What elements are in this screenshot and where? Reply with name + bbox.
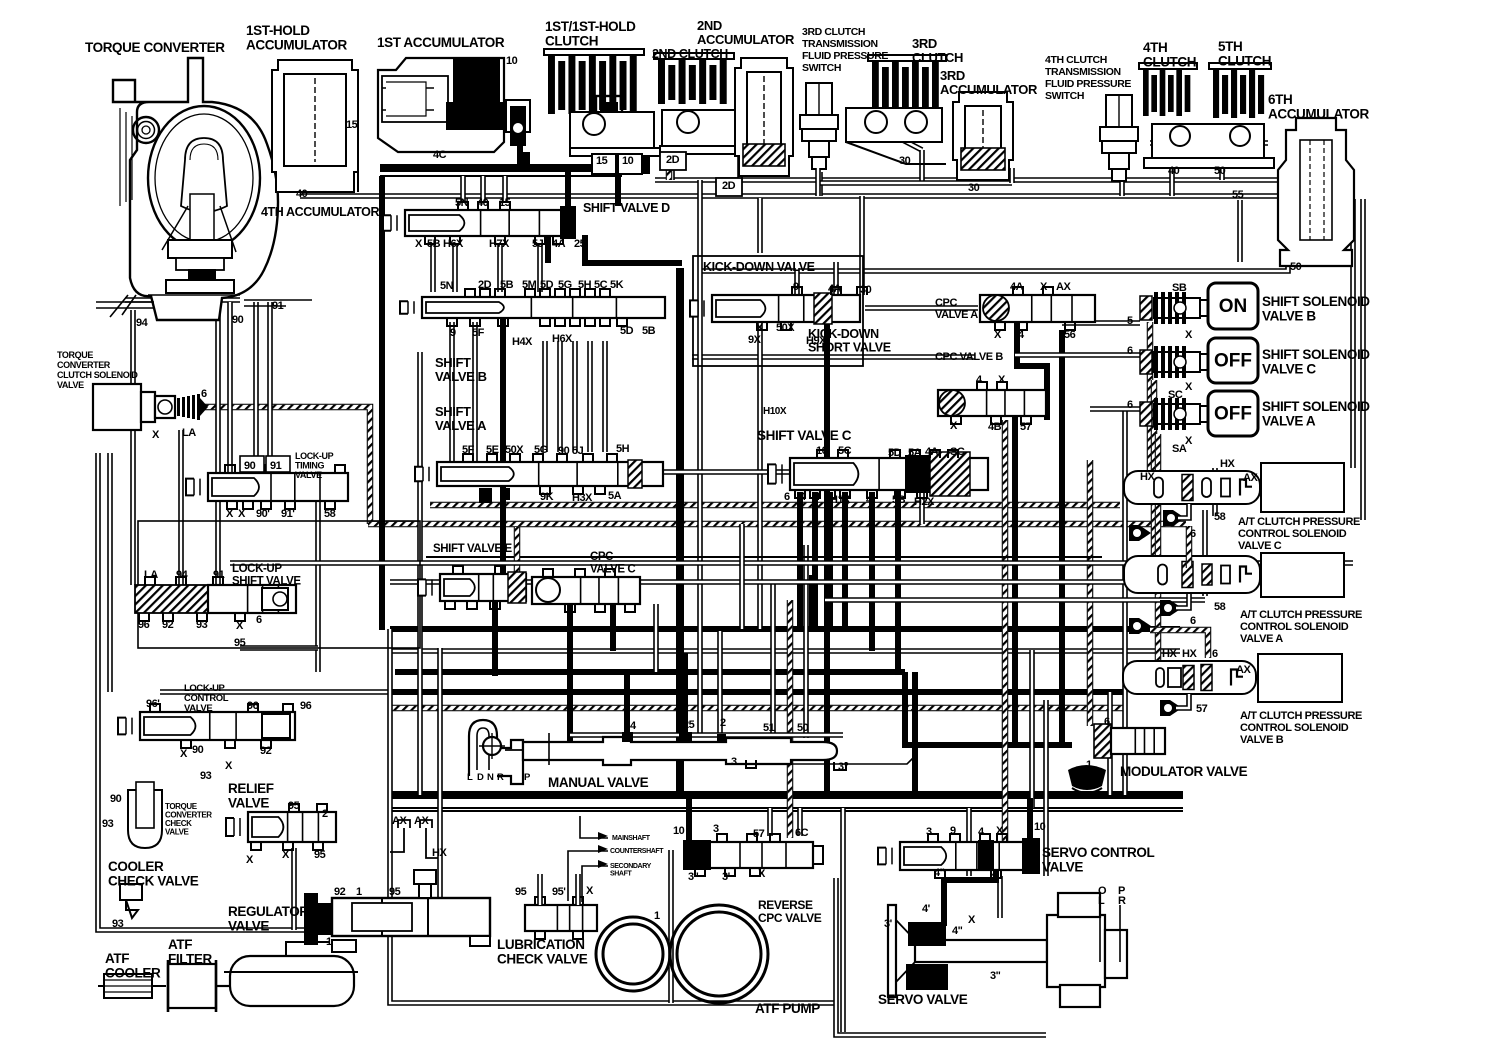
svg-text:X: X (415, 238, 423, 250)
wire vert 671 (668, 850, 674, 1003)
wire solenoid C feed (1151, 380, 1158, 566)
svg-text:91': 91' (281, 508, 295, 520)
svg-text:H6X: H6X (552, 333, 573, 345)
wire relief drop (291, 848, 297, 930)
svg-text:51: 51 (763, 722, 775, 734)
manual valve lever (469, 720, 523, 784)
svg-text:1: 1 (1086, 759, 1092, 771)
svg-text:HX: HX (1162, 648, 1177, 660)
torque converter hub (166, 240, 234, 293)
svg-text:6: 6 (1190, 528, 1196, 540)
wire B-A link (602, 341, 608, 452)
wire vert 1046 (1043, 700, 1049, 876)
svg-text:94: 94 (176, 569, 189, 581)
wire 91 drop (267, 302, 273, 473)
wire lubrication box (390, 629, 836, 1003)
svg-text:3": 3" (688, 871, 699, 883)
torque converter outlet lines (96, 302, 154, 308)
wire 2D manifold (655, 177, 1288, 183)
wire D-B 3 (497, 245, 503, 292)
svg-text:3': 3' (722, 871, 731, 883)
svg-text:57: 57 (753, 828, 765, 840)
svg-text:93: 93 (200, 770, 212, 782)
svg-text:AX: AX (1243, 472, 1258, 484)
svg-text:4': 4' (990, 871, 999, 883)
svg-text:X: X (968, 914, 976, 926)
lock-up shift valve hatch (135, 585, 208, 613)
wire 6 B hatch (1150, 630, 1208, 658)
torque converter clutch solenoid valve (93, 384, 175, 430)
wire vert 520 (517, 120, 523, 168)
reverse CPC valve (683, 840, 823, 870)
wire 735 (570, 732, 843, 738)
svg-text:5G: 5G (558, 279, 572, 291)
svg-text:95: 95 (314, 849, 326, 861)
svg-text:H2X: H2X (914, 496, 935, 508)
svg-text:1: 1 (356, 886, 362, 898)
svg-text:X: X (998, 374, 1006, 386)
wire hatched 708 (390, 705, 1125, 712)
svg-text:L: L (467, 772, 473, 783)
svg-text:9K: 9K (540, 491, 554, 503)
lubrication check valve (525, 905, 597, 931)
servo control valve (878, 842, 1024, 870)
wire vert 503 (500, 318, 506, 600)
wire 90 drop b (215, 302, 221, 473)
svg-text:2D: 2D (722, 180, 736, 192)
svg-text:1: 1 (654, 910, 660, 922)
svg-text:50: 50 (797, 722, 809, 734)
svg-text:4A: 4A (1010, 281, 1024, 293)
svg-text:90: 90 (110, 793, 122, 805)
ATF pump circles (596, 905, 768, 1003)
svg-text:5D: 5D (888, 447, 902, 459)
wire B-A link (557, 341, 563, 452)
1st accumulator valves (506, 100, 530, 132)
wire C drop (797, 492, 803, 629)
svg-text:X: X (180, 748, 188, 760)
svg-text:SC: SC (1168, 389, 1183, 401)
svg-text:2: 2 (322, 808, 328, 820)
wire 15 drop (597, 140, 603, 168)
wire 9 riser (757, 198, 763, 253)
svg-text:5H: 5H (578, 279, 592, 291)
svg-text:REVERSE CPC VALVE: REVERSE CPC VALVE (758, 898, 822, 925)
svg-text:90: 90 (192, 744, 204, 756)
svg-text:1: 1 (676, 759, 682, 771)
fitting 6 A (1129, 618, 1151, 634)
wire vert 680 bold (676, 268, 684, 795)
clutch 2nd pack (654, 53, 734, 104)
svg-text:4B: 4B (988, 421, 1002, 433)
wire box shift valve E top (426, 556, 1102, 558)
wire vert 618 (615, 172, 621, 206)
shift solenoid valve B icon (1140, 292, 1210, 324)
wire 50 long (700, 232, 1288, 271)
torque converter body (113, 58, 278, 320)
wire vert 969 (966, 808, 972, 876)
wire shift E hatch riser (514, 527, 521, 573)
node 15 boxed (592, 154, 616, 174)
svg-text:3": 3" (838, 761, 849, 773)
wire 95 link (240, 645, 318, 651)
svg-text:94: 94 (136, 317, 149, 329)
wire to modulator (905, 672, 1072, 745)
svg-text:57: 57 (1020, 421, 1032, 433)
svg-text:90: 90 (232, 314, 244, 326)
svg-text:2D: 2D (666, 154, 680, 166)
svg-text:X: X (756, 322, 764, 334)
lock-up timing valve (186, 473, 348, 501)
wire 3rd accum funnel (1009, 168, 1015, 183)
lock-up region box (138, 521, 420, 648)
clutch 1st piston (570, 112, 670, 156)
wire manual 51 (770, 582, 776, 738)
wire 692 bold (390, 689, 1125, 695)
wire manual valve rail (390, 791, 1183, 799)
svg-text:9X: 9X (748, 334, 762, 346)
wire 50 drop (1219, 143, 1225, 180)
wire kickdown to CPC A (865, 305, 978, 311)
kick-down valve (690, 293, 860, 324)
svg-text:X: X (996, 825, 1004, 837)
svg-text:92: 92 (162, 619, 174, 631)
svg-text:HX: HX (1220, 458, 1235, 470)
svg-text:COUNTERSHAFT: COUNTERSHAFT (610, 848, 664, 855)
svg-text:X: X (758, 868, 766, 880)
svg-text:5N: 5N (440, 280, 454, 292)
svg-text:N: N (487, 772, 494, 783)
svg-text:LA: LA (144, 569, 158, 581)
wire 15 stub (357, 120, 359, 192)
wire lub 95p (575, 874, 581, 905)
wire C drop (827, 492, 833, 629)
junction block 10 (634, 140, 650, 174)
modulator valve (1111, 728, 1165, 754)
svg-text:4TH ACCUMULATOR: 4TH ACCUMULATOR (261, 205, 379, 219)
wire vert 790 hatch (787, 600, 794, 838)
svg-text:6: 6 (1127, 345, 1133, 357)
wire bold bundle 1 (390, 626, 1180, 632)
svg-text:95: 95 (234, 637, 246, 649)
svg-text:10: 10 (816, 445, 828, 457)
svg-text:30: 30 (899, 155, 911, 167)
wire vert 742 (739, 524, 745, 629)
wire 94 drop (178, 430, 184, 585)
wire vert 1353 (1350, 199, 1356, 468)
svg-text:40: 40 (1168, 165, 1180, 177)
wire bundle 2 (390, 648, 1180, 654)
wire vert 1005 hatched (1002, 420, 1009, 845)
svg-text:96: 96 (138, 619, 150, 631)
wire kickdown 30 (859, 196, 865, 295)
svg-text:40: 40 (477, 197, 489, 209)
wire C drop (842, 492, 848, 629)
svg-text:AX: AX (392, 815, 407, 827)
svg-text:40: 40 (296, 188, 308, 200)
svg-text:4A: 4A (828, 283, 842, 295)
svg-text:X: X (586, 885, 594, 897)
svg-text:AX: AX (414, 815, 429, 827)
lock-up control valve (118, 712, 295, 740)
wire left box (98, 453, 440, 930)
wire 15 bold (380, 164, 645, 172)
wire vert 1215 (1212, 468, 1218, 516)
svg-text:3: 3 (713, 823, 719, 835)
wire manual 25 (682, 653, 688, 740)
wire revcpc 1 (767, 808, 773, 836)
wire D-B 4 (537, 245, 543, 292)
svg-text:AX: AX (1056, 281, 1071, 293)
svg-text:95: 95 (515, 886, 527, 898)
svg-text:6: 6 (1212, 648, 1218, 660)
svg-text:93: 93 (112, 918, 124, 930)
svg-text:H4X: H4X (512, 336, 533, 348)
wire vert 382 (379, 176, 385, 630)
svg-text:6: 6 (784, 491, 790, 503)
svg-text:H9X: H9X (806, 335, 827, 347)
svg-text:3: 3 (926, 826, 932, 838)
lock-up shift valve (208, 585, 296, 613)
wire D top 1 (460, 176, 466, 202)
svg-text:5B: 5B (427, 238, 441, 250)
wire manual 2 (717, 631, 723, 740)
wire 55 (1237, 200, 1243, 262)
svg-text:H6X: H6X (443, 238, 464, 250)
pressure switch 3rd clutch (800, 83, 838, 169)
svg-text:2: 2 (720, 717, 726, 729)
wire servo box (836, 878, 1046, 1035)
svg-text:91: 91 (272, 300, 284, 312)
wire A to C (645, 469, 790, 475)
fitting 57 B (1160, 700, 1182, 716)
wire D-B 1 (430, 245, 436, 292)
svg-text:4": 4" (934, 867, 945, 879)
wire solenoid A feed (1155, 434, 1162, 668)
svg-text:HX: HX (1140, 471, 1155, 483)
wire vert 915 (912, 672, 918, 795)
wire 2D drop0 (666, 140, 673, 180)
svg-text:SERVO VALVE: SERVO VALVE (878, 992, 968, 1007)
svg-text:5C: 5C (594, 279, 608, 291)
wire 5 to solenoid B (1062, 320, 1140, 326)
clutch 1st/1st-hold pack (544, 49, 644, 114)
svg-text:HX: HX (1182, 648, 1197, 660)
svg-text:H3X: H3X (572, 492, 593, 504)
modulator valve hatch (1094, 724, 1111, 758)
svg-text:5: 5 (1127, 315, 1133, 327)
svg-text:X: X (226, 508, 234, 520)
CPC valve B (938, 390, 1046, 416)
svg-text:96: 96 (300, 700, 312, 712)
pressure switch 4th clutch (1100, 95, 1138, 181)
A/T CPC solenoid valve B assembly (1123, 661, 1256, 694)
svg-text:ON: ON (1219, 296, 1248, 317)
wire 692 (160, 689, 1125, 695)
svg-text:X: X (1185, 329, 1193, 341)
wire servo inner (997, 876, 1003, 918)
svg-text:5A: 5A (608, 490, 622, 502)
svg-text:15: 15 (596, 155, 608, 167)
wire 6 C hatch (1186, 526, 1193, 568)
wire 91p drop (215, 502, 221, 585)
svg-text:93: 93 (102, 818, 114, 830)
wire D top 2 (480, 176, 486, 202)
svg-text:5D: 5D (540, 279, 554, 291)
svg-text:5K: 5K (610, 279, 624, 291)
svg-text:4": 4" (952, 925, 963, 937)
svg-text:KICK-DOWN VALVE: KICK-DOWN VALVE (703, 260, 815, 274)
wire hatched 505 (430, 502, 1120, 509)
fitting 6 C (1129, 525, 1151, 541)
svg-text:50X: 50X (776, 322, 795, 334)
wire D to kickdown bold (585, 235, 682, 263)
svg-text:90: 90 (244, 460, 256, 472)
solenoid B state ON (1208, 283, 1258, 329)
wire 94-90 (125, 297, 240, 303)
manual valve spool (505, 733, 837, 765)
regulator valve (304, 870, 490, 952)
svg-text:95': 95' (552, 886, 566, 898)
svg-text:92: 92 (334, 886, 346, 898)
solenoid C state OFF (1208, 338, 1258, 383)
svg-text:91: 91 (213, 569, 225, 581)
wire 6 hatched main (205, 407, 370, 524)
svg-text:5H: 5H (616, 443, 630, 455)
wire left box inner (107, 453, 113, 692)
svg-text:95: 95 (288, 800, 300, 812)
clutch 3rd assembly (846, 108, 946, 164)
wire 30 diagonal (868, 122, 922, 150)
svg-text:5J: 5J (532, 238, 544, 250)
wire 357 (692, 354, 975, 360)
shift valve A (415, 460, 663, 488)
wire 58 A link (1176, 594, 1189, 608)
clutch 5th pack (1209, 63, 1271, 118)
svg-text:1: 1 (326, 936, 332, 948)
wire CPC C drop 2 (610, 601, 616, 651)
svg-text:25: 25 (683, 719, 695, 731)
svg-text:56: 56 (1064, 329, 1076, 341)
svg-text:R: R (497, 772, 504, 783)
torque converter check valve (128, 782, 162, 848)
svg-text:SHIFT VALVE D: SHIFT VALVE D (583, 201, 670, 215)
kick-down valve box (693, 256, 863, 366)
svg-text:10: 10 (673, 825, 685, 837)
svg-text:10: 10 (1034, 821, 1046, 833)
wire vert 1110 (1107, 692, 1113, 795)
svg-text:X: X (225, 760, 233, 772)
svg-text:R: R (1118, 895, 1126, 907)
svg-text:X: X (282, 849, 290, 861)
wire bold bundle 3 (395, 669, 905, 675)
wire switch drop (817, 172, 823, 196)
wire shift valve E drop (492, 601, 498, 676)
wire CPC A to B (1017, 322, 1047, 420)
shift solenoid valve A icon (1140, 398, 1210, 430)
relief valve (226, 812, 336, 842)
wire 4th switch drop (1119, 172, 1125, 196)
svg-text:3: 3 (731, 756, 737, 768)
ATF strainer (224, 942, 358, 1006)
svg-text:5C: 5C (838, 445, 852, 457)
svg-text:L: L (1098, 895, 1105, 907)
svg-text:CPC VALVE B: CPC VALVE B (935, 351, 1003, 363)
wire kickdown 4A (833, 262, 839, 295)
node 91 boxed (266, 456, 290, 472)
svg-text:LUBRICATION CHECK VALVE: LUBRICATION CHECK VALVE (497, 937, 588, 967)
wire D black feed (565, 172, 571, 208)
svg-text:5F: 5F (472, 327, 485, 339)
svg-text:15: 15 (499, 197, 511, 209)
wire D-B 2 (452, 245, 458, 292)
wire vert 1205 (1202, 510, 1208, 596)
wire vert 1090 hatched (1087, 460, 1094, 726)
svg-text:4A: 4A (925, 446, 939, 458)
wire 58 C link (1178, 504, 1189, 518)
wire 582 (390, 579, 1125, 585)
mainshaft feed (580, 816, 608, 838)
svg-text:91: 91 (270, 460, 282, 472)
wire servo 10 drop (1027, 798, 1033, 840)
wire vert 898 (895, 460, 901, 672)
svg-text:AX: AX (1236, 664, 1251, 676)
wire 40-50 (1150, 140, 1268, 146)
svg-text:30: 30 (860, 284, 872, 296)
svg-text:X: X (1185, 435, 1193, 447)
wire revcpc 2 (797, 808, 803, 836)
wire C drop 3 (919, 492, 925, 524)
svg-text:50X: 50X (505, 444, 524, 456)
svg-text:ATF PUMP: ATF PUMP (755, 1001, 820, 1016)
svg-text:5B: 5B (642, 325, 656, 337)
svg-text:MODULATOR VALVE: MODULATOR VALVE (1120, 764, 1248, 779)
svg-text:58: 58 (324, 508, 336, 520)
svg-text:X: X (236, 620, 244, 632)
svg-text:57: 57 (1196, 703, 1208, 715)
svg-text:10: 10 (622, 155, 634, 167)
wire 15 thin (380, 175, 622, 177)
wire 58 drop (315, 501, 321, 672)
wire vert 843 (840, 808, 846, 1032)
shift solenoid valve C icon (1140, 346, 1210, 378)
svg-text:5E: 5E (486, 444, 499, 456)
svg-text:5J: 5J (572, 445, 584, 457)
wire vert 827 (824, 318, 830, 795)
svg-text:SB: SB (1172, 282, 1187, 294)
svg-text:4C: 4C (433, 149, 447, 161)
accumulator 3rd (953, 92, 1013, 180)
svg-text:2ND CLUTCH: 2ND CLUTCH (652, 47, 728, 61)
svg-text:X: X (1185, 381, 1193, 393)
ATF cooler (98, 974, 166, 998)
CPC valve C (532, 577, 640, 604)
svg-text:5N: 5N (455, 197, 469, 209)
wire 2D drop 2 (737, 150, 743, 180)
shift valve E (418, 572, 526, 603)
wire LA drop (130, 310, 136, 585)
clutch 3rd pack (868, 55, 946, 112)
wire hatched 524 (368, 521, 1186, 528)
svg-text:LA: LA (182, 427, 196, 439)
wire B-A left 1 (449, 322, 455, 462)
accumulator 6th (1278, 118, 1354, 266)
ATF filter (168, 960, 232, 1012)
svg-text:25: 25 (574, 238, 586, 250)
svg-text:6: 6 (1127, 399, 1133, 411)
wire C drop 2 (869, 492, 875, 651)
svg-text:2D: 2D (478, 279, 492, 291)
